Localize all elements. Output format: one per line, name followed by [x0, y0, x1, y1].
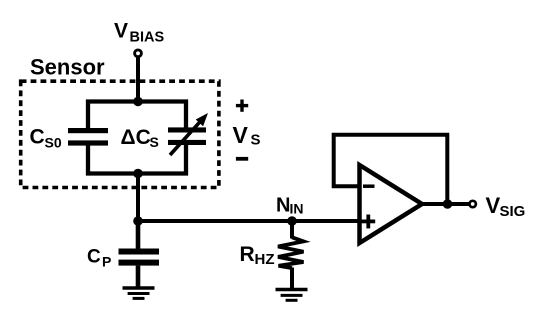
node sensor top junction [133, 97, 143, 107]
svg-text:V: V [486, 193, 501, 218]
wire sensor bottom rail with branch verticals [88, 144, 186, 174]
ground (RHZ) [276, 290, 308, 301]
wire CP bottom plate to ground [136, 266, 141, 288]
wire sensor top rail with branch verticals [88, 102, 186, 130]
svg-text:S0: S0 [45, 135, 62, 151]
wire main horizontal node to op-amp non-inverting input [136, 219, 362, 223]
svg-text:R: R [240, 243, 255, 266]
svg-text:BIAS: BIAS [130, 30, 165, 46]
svg-text:P: P [102, 253, 111, 269]
svg-text:HZ: HZ [255, 251, 275, 268]
op-amp inverting input marker (−) [363, 184, 375, 188]
label − (VS polarity) [236, 157, 248, 161]
terminal VSIG [470, 201, 476, 207]
ground (CP) [123, 288, 155, 298]
svg-text:C: C [30, 126, 45, 149]
svg-text:V: V [114, 20, 128, 43]
node sensor bottom junction [133, 169, 143, 179]
op-amp U1 [360, 165, 423, 243]
label + (VS polarity) [236, 100, 248, 112]
resistor RHZ [278, 237, 304, 268]
terminal VBIAS [135, 50, 142, 57]
svg-text:N: N [276, 195, 290, 217]
label V_S [233, 122, 261, 148]
label V_SIG [486, 193, 526, 220]
node CP junction [133, 216, 143, 226]
svg-text:V: V [233, 122, 249, 148]
svg-text:IN: IN [290, 201, 304, 217]
svg-text:ΔC: ΔC [121, 126, 151, 149]
wire NIN junction to RHZ [290, 221, 294, 239]
node output junction [443, 199, 453, 209]
op-amp non-inverting input marker (+) [362, 215, 376, 229]
node NIN junction [287, 216, 297, 226]
label R_HZ [240, 243, 275, 268]
capacitor ΔCS (variable) [168, 113, 208, 155]
svg-text:Sensor: Sensor [30, 55, 105, 80]
label C_P [87, 246, 111, 269]
wire op-amp output to VSIG terminal [420, 202, 469, 206]
label C_S0 [30, 126, 62, 151]
label V_BIAS [114, 20, 164, 46]
wire RHZ to ground [290, 268, 294, 290]
label ΔC_S [121, 126, 159, 150]
svg-text:S: S [251, 132, 261, 149]
wire VBIAS terminal to sensor top node [136, 57, 140, 102]
wire CP junction to CP top plate [136, 221, 141, 249]
wire feedback loop (output to inverting input) [334, 135, 448, 204]
svg-text:S: S [150, 134, 159, 150]
svg-text:SIG: SIG [500, 203, 526, 220]
capacitor CS0 [68, 128, 108, 146]
svg-text:C: C [87, 246, 101, 267]
label N_IN [276, 195, 304, 217]
sensor box (dashed) [21, 81, 219, 187]
capacitor CP [119, 249, 160, 266]
wire sensor bottom node to CP junction [136, 174, 140, 222]
